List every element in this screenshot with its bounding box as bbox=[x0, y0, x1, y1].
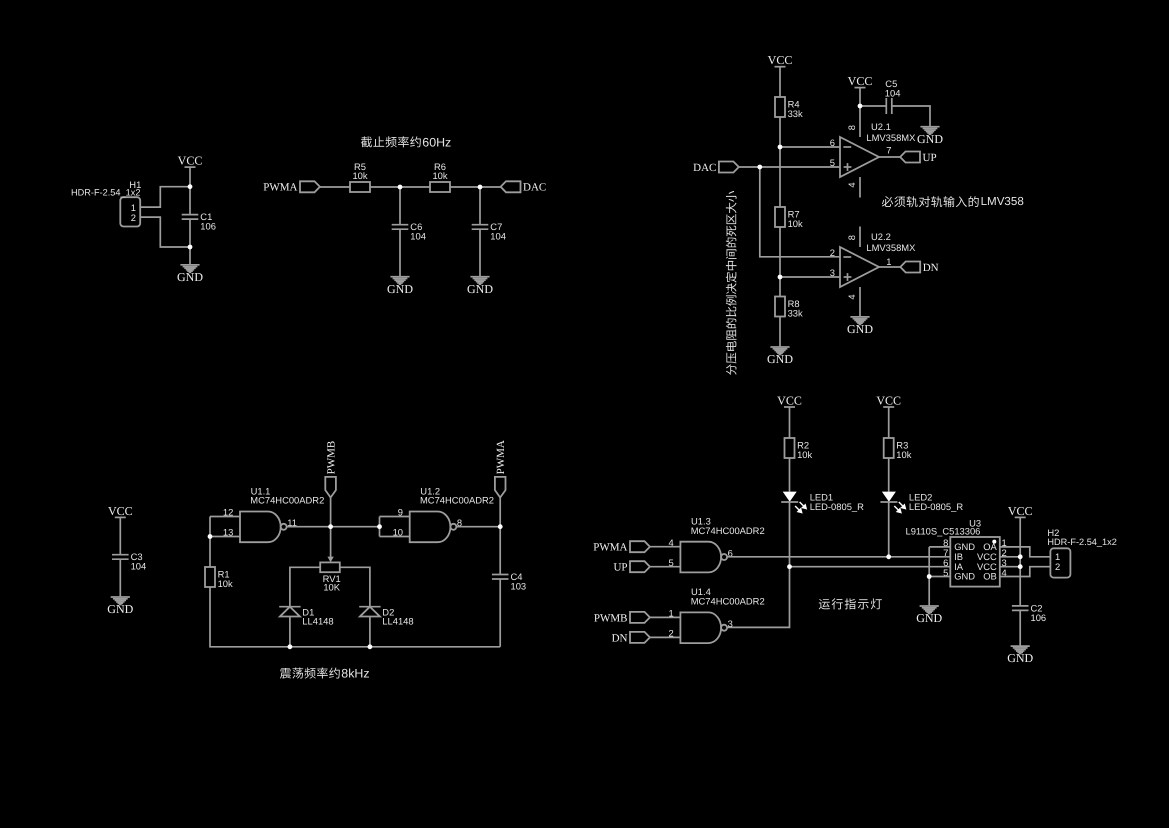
U2.1 labels bbox=[866, 121, 916, 143]
U2.1 pin 7 number bbox=[886, 144, 891, 155]
U1.3 label bbox=[691, 516, 765, 536]
U1.1 label bbox=[250, 485, 324, 505]
svg-text:LMV358MX: LMV358MX bbox=[866, 242, 916, 253]
svg-text:LMV358: LMV358 bbox=[981, 195, 1024, 208]
resistor R8 bbox=[775, 297, 803, 319]
wire C4 to rail bbox=[499, 579, 501, 647]
svg-text:PWMA: PWMA bbox=[495, 440, 507, 474]
wire R8 to GND bbox=[779, 317, 781, 348]
svg-text:103: 103 bbox=[511, 580, 527, 591]
port DN in flag bbox=[612, 632, 650, 644]
svg-text:PWMA: PWMA bbox=[263, 182, 297, 194]
junction R6/C7/DAC bbox=[478, 185, 483, 190]
wire PWMB to U1.4 bbox=[650, 616, 681, 618]
svg-text:MC74HC00ADR2: MC74HC00ADR2 bbox=[420, 495, 494, 506]
wire U1.2 pin10 bbox=[380, 536, 410, 538]
ground (GND D) bbox=[107, 597, 133, 616]
svg-text:U2.2: U2.2 bbox=[871, 231, 891, 242]
svg-text:4: 4 bbox=[846, 182, 857, 187]
wire C6 to GND bbox=[399, 229, 401, 277]
U2.2 pin 1 number bbox=[886, 256, 891, 267]
diode D2 bbox=[359, 606, 413, 626]
junction PWMA/C4 bbox=[498, 524, 503, 529]
svg-text:VCC: VCC bbox=[1008, 504, 1033, 518]
resistor R6 bbox=[430, 161, 450, 192]
port PWMA in flag bbox=[593, 541, 650, 553]
wire H1 pin1 to VCC node bbox=[140, 187, 190, 207]
wire node to C4 bbox=[499, 527, 501, 575]
wire VCC to R4 bbox=[779, 67, 781, 97]
junction D2/rail bbox=[368, 644, 373, 649]
svg-text:PWMB: PWMB bbox=[594, 612, 628, 624]
U2.2 labels bbox=[866, 231, 916, 253]
title text 截止频率约60Hz bbox=[361, 135, 451, 149]
ground (GND C2) bbox=[917, 127, 943, 146]
svg-text:2: 2 bbox=[131, 212, 136, 223]
wire node to U2.1 pin5 bbox=[760, 166, 840, 168]
svg-text:8: 8 bbox=[846, 235, 857, 240]
wire R4 to R7 bbox=[779, 117, 781, 207]
svg-text:VCC: VCC bbox=[848, 74, 873, 88]
wire C7 to GND bbox=[479, 229, 481, 277]
port DN output flag bbox=[900, 262, 938, 274]
ground (GND B1) bbox=[387, 277, 413, 296]
junction pin13/R1 bbox=[208, 534, 213, 539]
svg-text:DN: DN bbox=[923, 262, 939, 274]
svg-text:PWMA: PWMA bbox=[593, 542, 627, 554]
capacitor C7 bbox=[472, 221, 506, 242]
wire PWMA to R5 bbox=[320, 186, 350, 188]
resistor R7 bbox=[775, 207, 803, 229]
junction pin5/pin8 GND bbox=[927, 574, 932, 579]
power flag VCC (VCC E1) bbox=[777, 393, 802, 407]
svg-text:DAC: DAC bbox=[523, 182, 546, 194]
U3 labels bbox=[906, 517, 982, 536]
wire VCC rail to C2 bbox=[1019, 517, 1021, 606]
port PWMB flag bbox=[325, 441, 337, 498]
wire PWMA to U1.3 bbox=[650, 546, 681, 548]
svg-text:HDR-F-2.54_1x2: HDR-F-2.54_1x2 bbox=[71, 188, 140, 198]
U3 pin numbers bbox=[943, 537, 1007, 578]
capacitor C3 bbox=[112, 551, 146, 572]
H2 labels bbox=[1047, 527, 1116, 547]
ground (GND E1) bbox=[916, 606, 942, 625]
wire node to C1 bbox=[189, 187, 191, 215]
U2.1 pin 8 number bbox=[846, 125, 857, 130]
svg-text:GND: GND bbox=[917, 132, 943, 146]
capacitor C4 bbox=[492, 571, 526, 592]
wire U1.2 pin9 bbox=[380, 516, 410, 518]
power flag VCC (VCC D) bbox=[108, 504, 133, 518]
svg-text:VCC: VCC bbox=[777, 393, 802, 407]
svg-text:VCC: VCC bbox=[108, 504, 133, 518]
junction VCC/C5/pin8 bbox=[858, 104, 863, 109]
wire node to U2.2 pin2 bbox=[760, 167, 840, 257]
svg-text:GND: GND bbox=[954, 571, 975, 582]
wire C2 to GND bbox=[1019, 610, 1021, 646]
op-amp U2.2 bbox=[830, 247, 879, 287]
svg-text:GND: GND bbox=[767, 352, 793, 366]
wire U1.1 pin12 bbox=[210, 516, 240, 518]
resistor R1 bbox=[205, 567, 233, 589]
svg-text:10K: 10K bbox=[323, 582, 340, 593]
svg-text:GND: GND bbox=[107, 602, 133, 616]
wire C1 to node bbox=[189, 219, 191, 247]
power flag VCC (VCC A) bbox=[178, 154, 203, 168]
wire R5 to R6 bbox=[370, 186, 430, 188]
wire H1 pin2 to GND node bbox=[140, 217, 190, 247]
resistor R3 bbox=[884, 438, 912, 460]
svg-text:104: 104 bbox=[410, 231, 426, 242]
wire U3 pin5 stub bbox=[929, 576, 950, 578]
wire U2.2 out to DN bbox=[879, 266, 900, 268]
wire U3 pin8 stub bbox=[929, 546, 950, 548]
vertical note 分压电阻的比例决定中间的死区大小 bbox=[726, 191, 737, 375]
svg-text:GND: GND bbox=[847, 322, 873, 336]
wire OB to H2 pin2 bbox=[1000, 567, 1051, 577]
resistor R5 bbox=[350, 161, 370, 192]
wire U2.1 out to UP bbox=[879, 156, 900, 158]
U2.1 pin 4 number bbox=[846, 182, 857, 187]
svg-text:104: 104 bbox=[131, 561, 147, 572]
wire UP to U1.3 bbox=[650, 566, 681, 568]
wire D2 to rail bbox=[369, 617, 371, 647]
U2.2 pin 4 number bbox=[846, 294, 857, 299]
connector H2 bbox=[1050, 548, 1070, 577]
wire C3 to GND bbox=[119, 559, 121, 597]
wire node to C7 bbox=[479, 187, 481, 225]
svg-text:LL4148: LL4148 bbox=[382, 616, 413, 627]
wire R2 to LED1 bbox=[789, 458, 791, 492]
svg-text:2: 2 bbox=[1055, 561, 1060, 572]
port DAC input flag bbox=[693, 162, 739, 174]
motor driver U3 bbox=[950, 537, 1000, 587]
wire R3 to LED2 bbox=[888, 458, 890, 492]
svg-text:DN: DN bbox=[612, 632, 628, 644]
junction R5/R6/C6 bbox=[398, 185, 403, 190]
svg-text:10k: 10k bbox=[797, 449, 812, 460]
wire PWMB to node bbox=[330, 498, 332, 527]
power flag VCC (VCC E2) bbox=[876, 393, 901, 407]
LED LED1 bbox=[781, 492, 864, 513]
NAND gate U1.3 bbox=[668, 537, 732, 573]
wire R6 to DAC bbox=[450, 186, 501, 188]
ground (GND C3) bbox=[847, 317, 873, 336]
svg-text:LL4148: LL4148 bbox=[302, 616, 333, 627]
ground (GND C1) bbox=[767, 347, 793, 366]
power flag VCC (VCC C2) bbox=[848, 74, 873, 88]
svg-text:104: 104 bbox=[490, 231, 506, 242]
svg-text:LMV358MX: LMV358MX bbox=[866, 132, 916, 143]
capacitor C1 bbox=[182, 211, 216, 232]
junction R7/R8/pin3 bbox=[778, 275, 783, 280]
bottom rail wire bbox=[210, 587, 500, 647]
svg-text:60Hz: 60Hz bbox=[422, 135, 451, 149]
wire U2.2 pin8 stub bbox=[859, 227, 861, 248]
junction H1.2/C1/GND bbox=[188, 245, 193, 250]
wire R7 to R8 bbox=[779, 227, 781, 297]
op-amp U2.1 bbox=[830, 137, 879, 177]
svg-text:6: 6 bbox=[830, 137, 835, 148]
wire RV1 right to D2 bbox=[340, 567, 370, 606]
junction VCC/pin3 bbox=[1018, 564, 1023, 569]
NAND gate U1.4 bbox=[668, 608, 732, 644]
ground (GND B2) bbox=[467, 277, 493, 296]
potentiometer RV1 bbox=[320, 527, 341, 593]
port PWMB in flag bbox=[594, 612, 650, 624]
junction VCC/pin2 bbox=[1018, 554, 1023, 559]
port PWMA flag bbox=[495, 440, 507, 497]
wire node to C6 bbox=[399, 187, 401, 225]
junction LED1/IA bbox=[787, 564, 792, 569]
svg-text:5: 5 bbox=[830, 157, 835, 168]
note text 必须轨对轨输入的LMV358 bbox=[882, 195, 1024, 208]
svg-text:8kHz: 8kHz bbox=[341, 667, 369, 681]
svg-text:10k: 10k bbox=[896, 449, 911, 460]
wire PWMA to node bbox=[499, 498, 501, 527]
svg-text:104: 104 bbox=[885, 88, 901, 99]
port DAC output flag bbox=[501, 181, 547, 193]
U1.2 label bbox=[420, 485, 494, 505]
wire node to U2.2 pin3 bbox=[780, 276, 840, 278]
wire U3 pin3 VCC bbox=[1000, 566, 1020, 568]
svg-text:UP: UP bbox=[923, 152, 937, 164]
wire DAC to node bbox=[739, 166, 760, 168]
svg-text:106: 106 bbox=[200, 221, 216, 232]
wire node to U2.1 pin6 bbox=[780, 146, 840, 148]
capacitor C2 bbox=[1012, 602, 1046, 623]
wire U2.2 pin4 to GND bbox=[859, 287, 861, 317]
diode D1 bbox=[279, 606, 333, 626]
svg-text:10k: 10k bbox=[352, 170, 367, 181]
resistor R2 bbox=[785, 438, 813, 460]
svg-text:MC74HC00ADR2: MC74HC00ADR2 bbox=[691, 525, 765, 536]
svg-text:8: 8 bbox=[846, 125, 857, 130]
wire U1.3 out to U3 IB bbox=[727, 556, 950, 558]
svg-text:MC74HC00ADR2: MC74HC00ADR2 bbox=[250, 495, 324, 506]
svg-text:VCC: VCC bbox=[876, 393, 901, 407]
NAND gate U1.1 bbox=[223, 507, 297, 543]
wire node to C5 bbox=[860, 105, 886, 107]
junction PWMB/RV1 wiper bbox=[328, 524, 333, 529]
wire U2.1 pin8 bbox=[859, 106, 861, 137]
port UP in flag bbox=[613, 561, 649, 573]
wire D1 to rail bbox=[289, 617, 291, 647]
H1 labels bbox=[71, 179, 141, 198]
wire U3 pin2 VCC bbox=[1000, 556, 1020, 558]
wire OA to H2 pin1 bbox=[1000, 547, 1051, 557]
wire GND tie bbox=[928, 547, 930, 577]
svg-text:33k: 33k bbox=[788, 108, 803, 119]
svg-text:3: 3 bbox=[830, 267, 835, 278]
svg-text:DAC: DAC bbox=[693, 162, 716, 174]
port PWMA input flag bbox=[263, 181, 320, 193]
wire LED2 to IB bbox=[888, 502, 890, 557]
wire DN to U1.4 bbox=[650, 636, 681, 638]
NAND gate U1.2 bbox=[393, 507, 463, 543]
wire U1.2 out bbox=[456, 526, 500, 528]
wire LED1 to U1.4 out bbox=[727, 502, 790, 627]
svg-text:3: 3 bbox=[728, 618, 733, 629]
power flag VCC (VCC E3) bbox=[1008, 504, 1033, 518]
wire VCC to R2 bbox=[789, 407, 791, 438]
junction U1.2 inputs bbox=[377, 524, 382, 529]
connector H1 bbox=[120, 197, 140, 226]
power flag VCC (VCC C1) bbox=[768, 53, 793, 67]
U2.2 pin 8 number bbox=[846, 235, 857, 240]
ground (GND A) bbox=[177, 265, 203, 284]
wire node to GND bbox=[189, 247, 191, 265]
U1.4 label bbox=[691, 586, 765, 606]
svg-text:33k: 33k bbox=[788, 308, 803, 319]
svg-text:U2.1: U2.1 bbox=[871, 121, 891, 132]
wire VCC to node bbox=[189, 167, 191, 187]
ground (GND E2) bbox=[1007, 646, 1033, 665]
svg-text:2: 2 bbox=[830, 247, 835, 258]
svg-text:VCC: VCC bbox=[768, 53, 793, 67]
wire U1.1 out to U1.2 in bbox=[287, 526, 380, 528]
svg-text:1: 1 bbox=[886, 256, 891, 267]
svg-text:4: 4 bbox=[846, 294, 857, 299]
wire node to U3 IA bbox=[790, 566, 951, 568]
svg-text:GND: GND bbox=[177, 270, 203, 284]
LED LED2 bbox=[880, 492, 963, 513]
svg-text:10k: 10k bbox=[788, 218, 803, 229]
junction H1.1/C1/VCC bbox=[188, 184, 193, 189]
svg-text:VCC: VCC bbox=[178, 154, 203, 168]
svg-text:UP: UP bbox=[613, 562, 627, 574]
junction LED2/IB bbox=[886, 554, 891, 559]
wire RV1 left to D1 bbox=[290, 567, 320, 606]
capacitor C5 bbox=[885, 78, 901, 114]
wire input tie to R1 bbox=[209, 517, 211, 568]
resistor R4 bbox=[775, 97, 803, 119]
svg-text:HDR-F-2.54_1x2: HDR-F-2.54_1x2 bbox=[1047, 537, 1116, 547]
wire C5 to GND bbox=[892, 106, 930, 127]
svg-text:MC74HC00ADR2: MC74HC00ADR2 bbox=[691, 596, 765, 607]
wire to GND bbox=[928, 577, 930, 607]
svg-text:LED-0805_R: LED-0805_R bbox=[909, 501, 963, 512]
svg-text:OB: OB bbox=[983, 571, 997, 582]
wire U1.1 pin13 bbox=[210, 536, 240, 538]
svg-text:PWMB: PWMB bbox=[326, 441, 338, 475]
svg-text:GND: GND bbox=[916, 611, 942, 625]
svg-text:106: 106 bbox=[1031, 612, 1047, 623]
junction R4/R7/pin6 bbox=[778, 145, 783, 150]
svg-text:GND: GND bbox=[387, 282, 413, 296]
capacitor C6 bbox=[392, 221, 426, 242]
junction DAC split bbox=[757, 165, 762, 170]
svg-text:L9110S_C513306: L9110S_C513306 bbox=[906, 525, 981, 536]
wire U1.2 input tie bbox=[379, 517, 381, 537]
wire VCC to R3 bbox=[888, 407, 890, 438]
wire VCC to C5 node bbox=[859, 88, 861, 106]
wire VCC to C3 bbox=[119, 517, 121, 554]
svg-text:GND: GND bbox=[467, 282, 493, 296]
svg-text:GND: GND bbox=[1007, 651, 1033, 665]
title text 震荡频率约8kHz bbox=[280, 667, 370, 681]
note text 运行指示灯 bbox=[819, 598, 882, 609]
svg-text:7: 7 bbox=[886, 144, 891, 155]
svg-text:LED-0805_R: LED-0805_R bbox=[810, 501, 864, 512]
svg-text:10k: 10k bbox=[218, 578, 233, 589]
junction D1/rail bbox=[288, 644, 293, 649]
wire U2.1 pin4 stub bbox=[859, 177, 861, 198]
port UP output flag bbox=[900, 152, 936, 164]
svg-text:10k: 10k bbox=[432, 170, 447, 181]
